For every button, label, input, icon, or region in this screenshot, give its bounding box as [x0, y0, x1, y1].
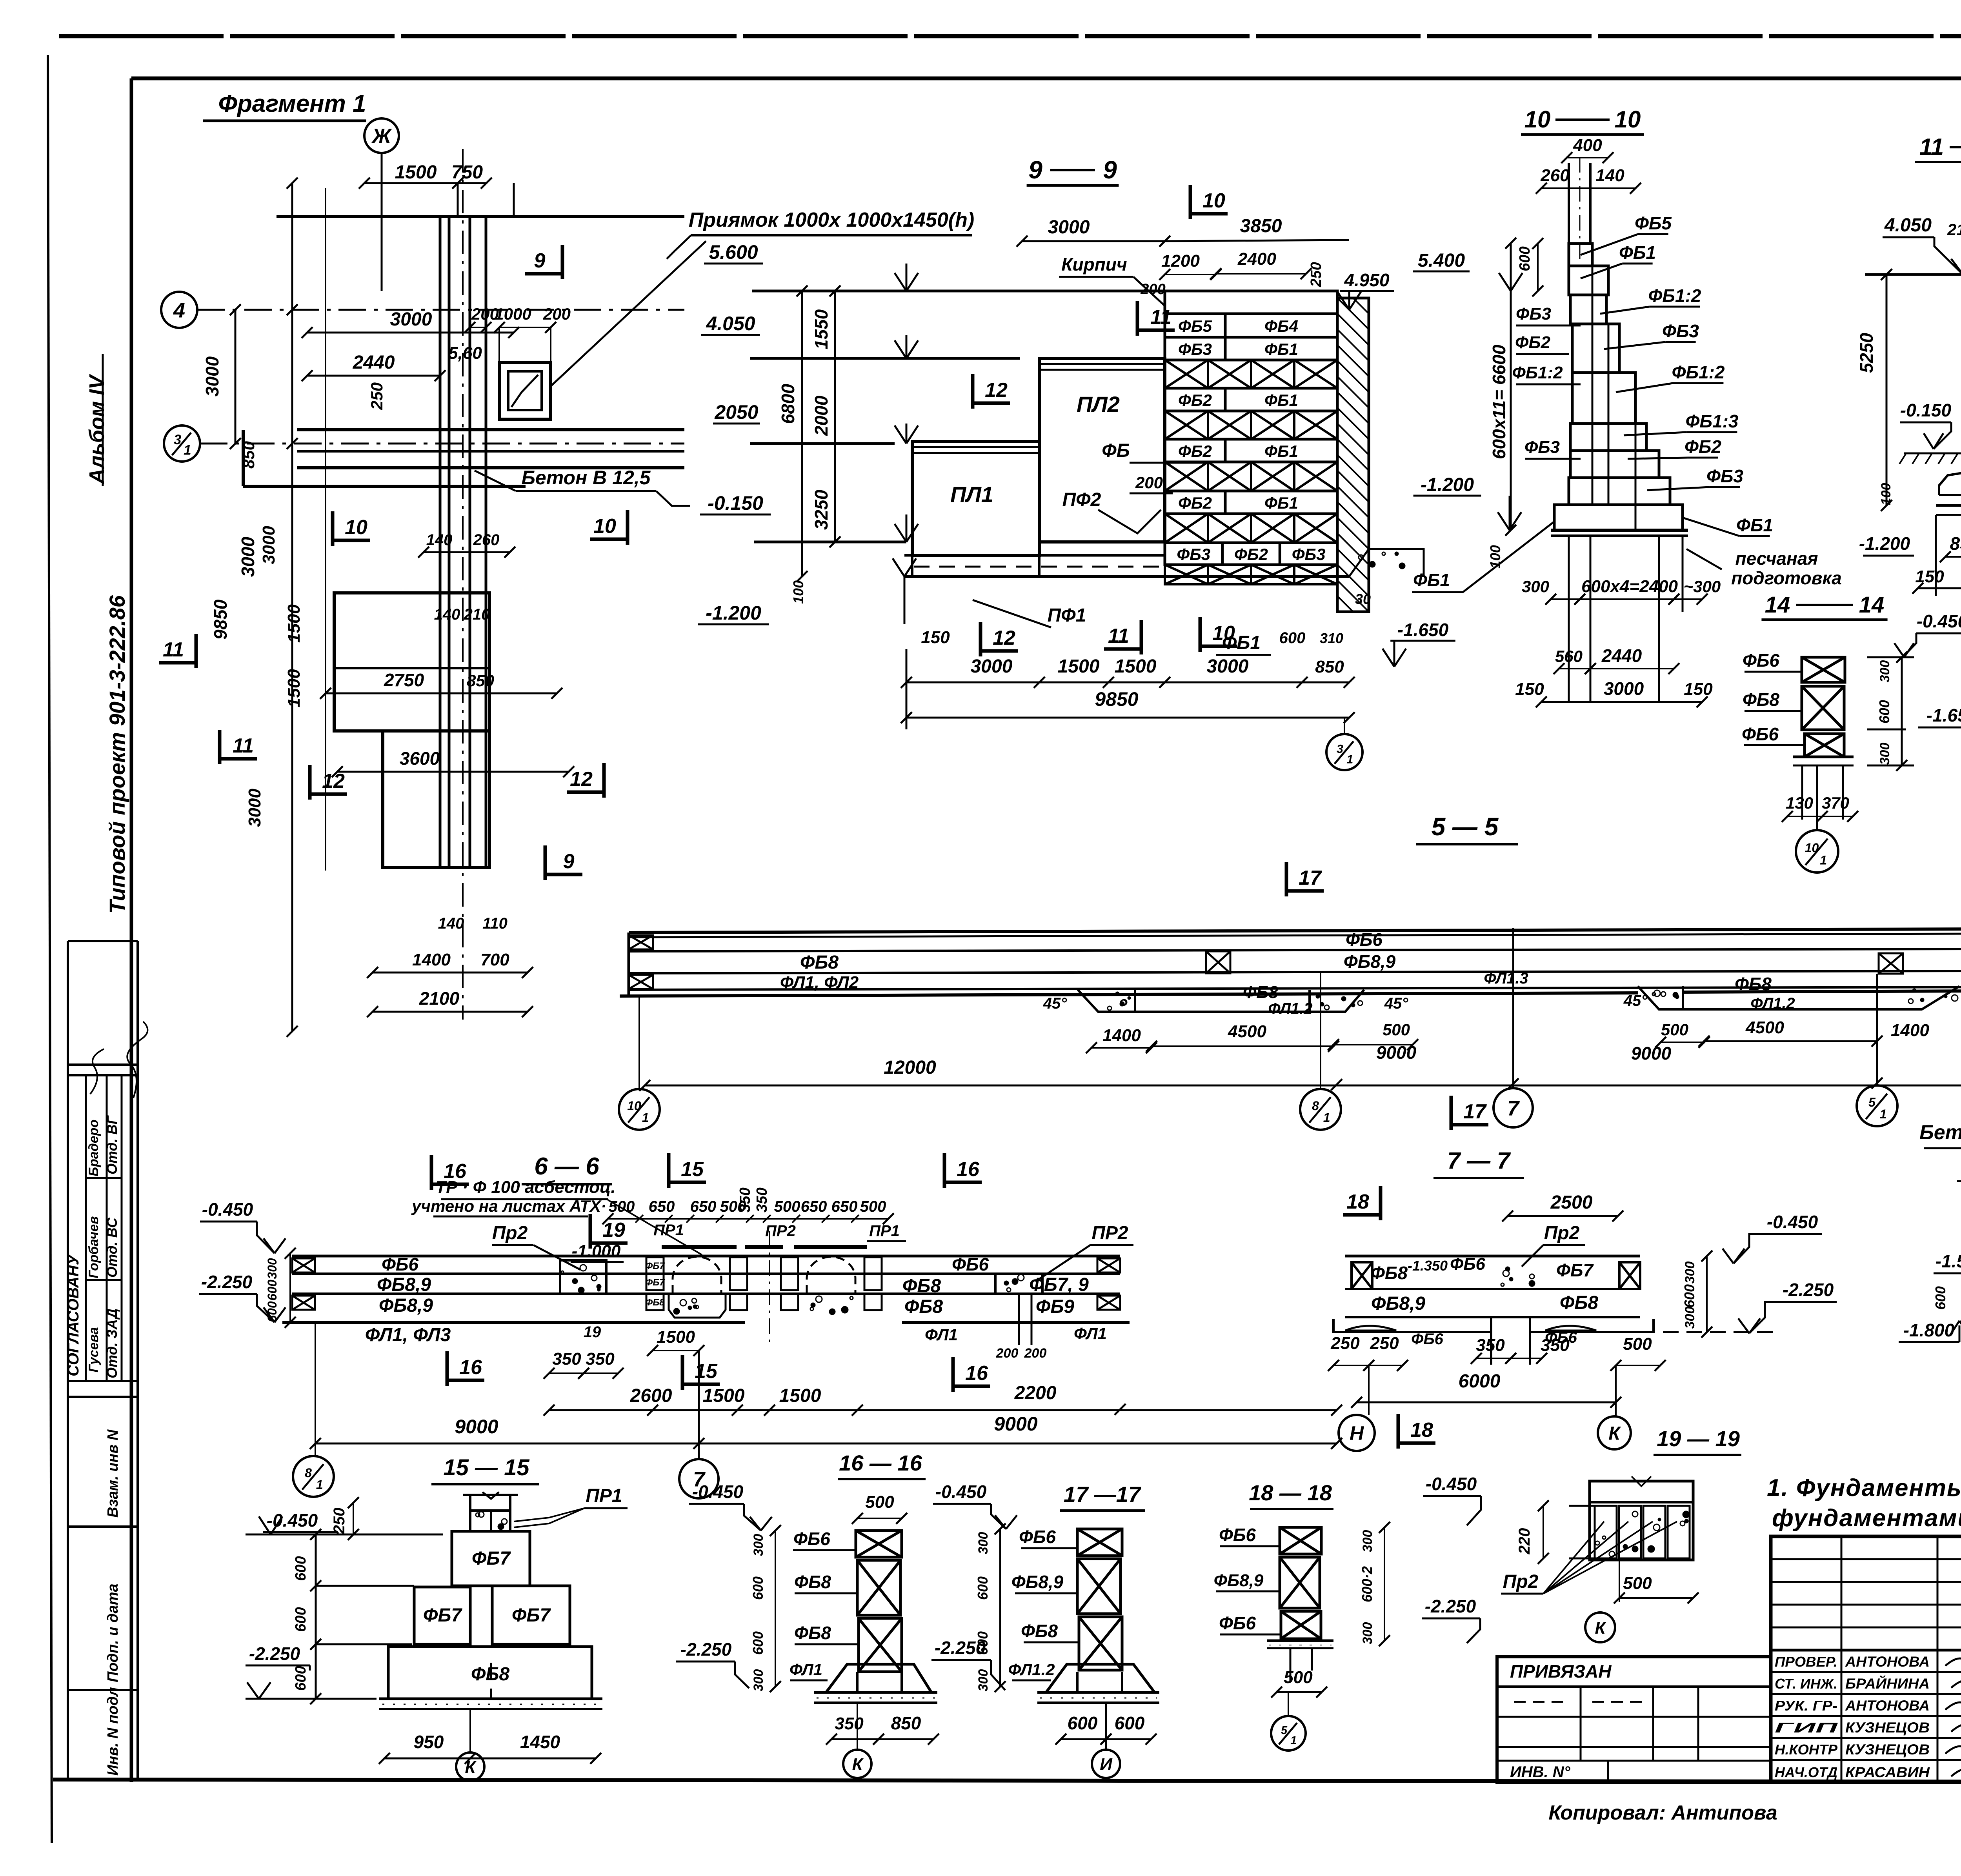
svg-text:ФБ5: ФБ5	[1635, 213, 1672, 233]
svg-text:500: 500	[1623, 1574, 1652, 1593]
svg-text:600: 600	[265, 1301, 279, 1322]
svg-text:ФЛ1.3: ФЛ1.3	[1484, 970, 1528, 987]
svg-text:130: 130	[1786, 794, 1813, 812]
svg-text:4500: 4500	[1228, 1022, 1266, 1041]
svg-text:СТ. ИНЖ.: СТ. ИНЖ.	[1775, 1676, 1837, 1692]
svg-text:12: 12	[570, 768, 593, 791]
svg-text:4.950: 4.950	[1344, 270, 1390, 290]
svg-text:-1.650: -1.650	[1397, 620, 1449, 640]
svg-text:ФБ7: ФБ7	[423, 1605, 462, 1626]
svg-text:9: 9	[534, 249, 546, 272]
svg-text:4.050: 4.050	[1884, 215, 1932, 236]
svg-text:ФЛ1, ФЛ3: ФЛ1, ФЛ3	[365, 1325, 451, 1345]
svg-text:2600: 2600	[630, 1385, 672, 1406]
svg-text:2500: 2500	[1550, 1192, 1593, 1213]
svg-text:1400: 1400	[412, 950, 451, 969]
svg-text:7 — 7: 7 — 7	[1447, 1147, 1511, 1174]
svg-text:300: 300	[751, 1534, 766, 1556]
svg-text:8: 8	[305, 1466, 312, 1480]
svg-text:ФБ7: ФБ7	[1556, 1260, 1594, 1280]
svg-text:ФЛ1: ФЛ1	[925, 1325, 958, 1344]
svg-text:100: 100	[790, 580, 806, 604]
svg-text:600: 600	[750, 1576, 766, 1600]
svg-text:200: 200	[996, 1346, 1019, 1361]
svg-text:150: 150	[921, 628, 950, 647]
svg-text:140: 140	[434, 606, 460, 623]
svg-text:370: 370	[1822, 794, 1849, 812]
svg-text:Пр2: Пр2	[492, 1223, 528, 1243]
svg-text:-0.450: -0.450	[1917, 611, 1961, 631]
svg-text:ФБ6: ФБ6	[382, 1254, 418, 1274]
svg-text:100: 100	[1879, 483, 1894, 505]
svg-text:Отд. ВГ: Отд. ВГ	[104, 1115, 120, 1174]
svg-text:Брадеро: Брадеро	[86, 1120, 101, 1176]
svg-text:4500: 4500	[1745, 1018, 1784, 1037]
svg-text:ФБ8: ФБ8	[1371, 1263, 1408, 1283]
svg-text:ФБ3: ФБ3	[1662, 321, 1699, 341]
svg-text:ФБ6: ФБ6	[1219, 1525, 1256, 1545]
svg-text:15: 15	[695, 1360, 718, 1383]
svg-text:Пр2: Пр2	[1544, 1223, 1580, 1243]
svg-text:850: 850	[239, 441, 258, 469]
svg-text:600: 600	[1517, 246, 1533, 271]
svg-text:ПР1: ПР1	[586, 1485, 622, 1506]
svg-text:-0.450: -0.450	[935, 1482, 987, 1502]
svg-text:18 — 18: 18 — 18	[1249, 1480, 1332, 1505]
svg-text:9000: 9000	[455, 1416, 498, 1438]
svg-text:350: 350	[737, 1187, 753, 1212]
svg-text:110: 110	[482, 915, 508, 932]
svg-text:Пр2: Пр2	[1503, 1571, 1539, 1592]
svg-text:1200: 1200	[1161, 251, 1200, 271]
svg-text:3: 3	[1337, 742, 1343, 756]
svg-text:1000: 1000	[495, 305, 531, 323]
svg-text:600: 600	[293, 1556, 309, 1581]
svg-text:3000: 3000	[1207, 656, 1249, 677]
svg-text:ПРИВЯЗАН: ПРИВЯЗАН	[1510, 1661, 1612, 1681]
svg-text:ФБ7: ФБ7	[645, 1261, 665, 1271]
svg-text:ПР2: ПР2	[1091, 1223, 1128, 1243]
svg-text:5: 5	[1868, 1095, 1876, 1109]
svg-text:140: 140	[438, 915, 464, 932]
svg-text:-2.250: -2.250	[201, 1272, 253, 1292]
svg-text:1500: 1500	[284, 604, 304, 643]
svg-text:ФБ8: ФБ8	[1560, 1292, 1598, 1313]
svg-text:300: 300	[1683, 1307, 1697, 1329]
svg-text:Бетон В 12,5: Бетон В 12,5	[522, 467, 651, 489]
svg-text:Горбачев: Горбачев	[86, 1216, 101, 1278]
svg-text:-1.200: -1.200	[1859, 533, 1910, 554]
svg-text:ФБ8: ФБ8	[645, 1297, 665, 1308]
svg-text:5 — 5: 5 — 5	[1432, 813, 1499, 841]
svg-text:1500: 1500	[657, 1327, 695, 1347]
svg-text:850: 850	[467, 671, 494, 690]
svg-text:ФБ1: ФБ1	[1413, 570, 1450, 590]
svg-text:-0.450: -0.450	[1767, 1212, 1818, 1232]
svg-text:6 — 6: 6 — 6	[534, 1153, 599, 1180]
svg-text:10: 10	[1202, 189, 1225, 212]
svg-text:-2.250: -2.250	[249, 1643, 300, 1664]
svg-text:16: 16	[965, 1362, 988, 1385]
svg-text:560: 560	[1555, 647, 1583, 665]
svg-text:1500: 1500	[284, 669, 304, 707]
svg-text:11: 11	[1108, 625, 1129, 647]
svg-text:150: 150	[1515, 680, 1544, 699]
svg-text:10: 10	[593, 515, 616, 538]
svg-text:ФБ8,9: ФБ8,9	[1371, 1293, 1425, 1314]
svg-text:ФБ2: ФБ2	[1684, 436, 1721, 457]
svg-text:250: 250	[1370, 1334, 1399, 1353]
svg-text:Приямок 1000х 1000х1450(h): Приямок 1000х 1000х1450(h)	[689, 209, 974, 231]
svg-text:600: 600	[1932, 1286, 1948, 1310]
svg-text:8: 8	[1312, 1099, 1319, 1113]
svg-text:ФБ3: ФБ3	[1524, 438, 1560, 457]
svg-text:3000: 3000	[971, 656, 1013, 677]
svg-text:650: 650	[649, 1198, 675, 1215]
svg-text:10: 10	[627, 1099, 641, 1113]
svg-text:250: 250	[1330, 1334, 1360, 1353]
svg-text:-2.250: -2.250	[935, 1638, 986, 1658]
svg-text:песчаная: песчаная	[1735, 548, 1818, 569]
svg-text:850: 850	[1950, 533, 1961, 554]
svg-text:БРАЙНИНА: БРАЙНИНА	[1845, 1675, 1930, 1692]
svg-text:17: 17	[1299, 867, 1322, 889]
svg-text:30: 30	[1355, 591, 1371, 607]
svg-text:ФБ2: ФБ2	[1234, 545, 1268, 564]
svg-text:ФБ6: ФБ6	[1346, 929, 1383, 950]
svg-text:9000: 9000	[994, 1413, 1037, 1435]
svg-text:140: 140	[1595, 166, 1624, 185]
svg-text:600: 600	[293, 1666, 309, 1691]
svg-text:Подп. и дата: Подп. и дата	[105, 1583, 121, 1682]
svg-text:500: 500	[1284, 1668, 1313, 1687]
svg-text:140: 140	[426, 531, 453, 549]
svg-text:10: 10	[345, 516, 367, 539]
svg-text:350: 350	[754, 1187, 770, 1212]
svg-text:ФБ1:2: ФБ1:2	[1512, 363, 1563, 382]
svg-text:ФБ6: ФБ6	[1743, 650, 1779, 671]
svg-text:45°: 45°	[1043, 995, 1067, 1012]
svg-text:ФЛ1: ФЛ1	[789, 1660, 822, 1679]
svg-text:К: К	[1608, 1423, 1621, 1444]
svg-text:18: 18	[1346, 1191, 1369, 1213]
svg-text:45°: 45°	[1623, 992, 1648, 1009]
svg-text:ФБ1:3: ФБ1:3	[1686, 411, 1739, 431]
svg-text:3000: 3000	[1048, 217, 1090, 238]
svg-text:9: 9	[563, 850, 575, 873]
svg-text:Отд. ВС: Отд. ВС	[104, 1217, 120, 1278]
svg-text:НАЧ.ОТД: НАЧ.ОТД	[1775, 1764, 1837, 1780]
svg-text:700: 700	[480, 950, 509, 969]
svg-text:ФБ2: ФБ2	[1178, 391, 1212, 409]
svg-text:ФБ1: ФБ1	[1736, 515, 1773, 535]
svg-text:Фрагмент 1: Фрагмент 1	[218, 90, 366, 117]
svg-text:ФБ1: ФБ1	[1619, 242, 1656, 263]
svg-text:ПР1: ПР1	[653, 1222, 684, 1239]
svg-text:ПЛ1: ПЛ1	[950, 482, 993, 507]
svg-text:10: 10	[1805, 841, 1819, 855]
svg-text:КУЗНЕЦОВ: КУЗНЕЦОВ	[1845, 1741, 1930, 1758]
svg-text:ФБ3: ФБ3	[1706, 466, 1743, 486]
svg-text:2200: 2200	[1014, 1383, 1057, 1403]
svg-text:ПРОВЕР.: ПРОВЕР.	[1775, 1654, 1837, 1670]
svg-text:600х4=2400: 600х4=2400	[1581, 577, 1678, 596]
svg-text:5.600: 5.600	[709, 241, 758, 263]
svg-text:3250: 3250	[811, 489, 831, 530]
svg-text:250: 250	[331, 1508, 348, 1534]
svg-text:1400: 1400	[1891, 1021, 1929, 1040]
svg-text:-1.500: -1.500	[1936, 1251, 1961, 1271]
svg-text:600: 600	[1279, 629, 1306, 647]
svg-text:600: 600	[1876, 700, 1892, 723]
svg-text:К: К	[1595, 1618, 1606, 1638]
svg-text:600х11= 6600: 600х11= 6600	[1489, 345, 1509, 459]
svg-text:500: 500	[860, 1198, 886, 1215]
svg-text:10: 10	[1615, 106, 1641, 133]
svg-text:600: 600	[293, 1607, 309, 1632]
svg-text:1500: 1500	[1115, 656, 1157, 677]
svg-text:2050: 2050	[714, 401, 758, 423]
svg-text:9: 9	[1103, 156, 1117, 184]
svg-text:ФБ3: ФБ3	[1516, 304, 1551, 324]
svg-text:14: 14	[1859, 592, 1885, 618]
svg-text:ФБ5: ФБ5	[1178, 317, 1212, 335]
svg-text:Типовой проект 901-3-222.86: Типовой проект 901-3-222.86	[105, 595, 129, 914]
svg-text:1450: 1450	[520, 1732, 560, 1752]
svg-text:ФБ: ФБ	[1102, 440, 1130, 461]
svg-text:300: 300	[1360, 1530, 1375, 1552]
svg-text:19: 19	[584, 1323, 601, 1341]
svg-text:Отд. ЗАД: Отд. ЗАД	[104, 1309, 120, 1378]
svg-text:ФБ1: ФБ1	[1222, 633, 1261, 653]
svg-text:ФБ7: ФБ7	[472, 1548, 511, 1569]
svg-text:12: 12	[993, 627, 1015, 649]
svg-text:2000: 2000	[811, 395, 831, 436]
svg-text:ФБ7: ФБ7	[512, 1605, 551, 1626]
svg-text:600: 600	[1068, 1713, 1098, 1733]
svg-text:2440: 2440	[353, 352, 395, 373]
svg-text:350: 350	[1541, 1336, 1570, 1355]
svg-text:ФБ2: ФБ2	[1178, 442, 1212, 460]
svg-text:ФБ8: ФБ8	[794, 1623, 831, 1643]
svg-text:-0.150: -0.150	[708, 492, 763, 514]
svg-text:фундаментами корпуса.: фундаментами корпуса.	[1772, 1505, 1961, 1532]
svg-text:1550: 1550	[811, 309, 831, 349]
svg-text:850: 850	[891, 1713, 921, 1733]
svg-text:19 — 19: 19 — 19	[1657, 1426, 1740, 1451]
svg-text:ФБ1: ФБ1	[1264, 442, 1298, 460]
svg-text:600: 600	[1115, 1713, 1145, 1733]
svg-text:650: 650	[831, 1198, 858, 1215]
svg-text:ФБ8: ФБ8	[800, 952, 839, 973]
svg-text:9850: 9850	[210, 599, 231, 640]
svg-text:1500: 1500	[395, 162, 437, 183]
svg-text:3: 3	[174, 432, 182, 447]
svg-text:Гусева: Гусева	[86, 1327, 101, 1372]
svg-text:600·2: 600·2	[1359, 1566, 1375, 1602]
svg-text:5.400: 5.400	[1418, 250, 1465, 271]
svg-text:18: 18	[1410, 1419, 1433, 1442]
svg-text:12000: 12000	[884, 1057, 936, 1078]
svg-text:300: 300	[751, 1669, 766, 1692]
svg-text:300: 300	[1877, 743, 1892, 765]
svg-text:ФБ8,9: ФБ8,9	[377, 1274, 431, 1295]
svg-text:ФБ2: ФБ2	[1515, 333, 1551, 352]
svg-text:-0.450: -0.450	[1426, 1474, 1477, 1494]
svg-text:ФБ3: ФБ3	[1178, 340, 1212, 358]
svg-text:500: 500	[1623, 1334, 1652, 1354]
svg-text:ФБ1:2: ФБ1:2	[1672, 362, 1725, 382]
svg-text:АНТОНОВА: АНТОНОВА	[1845, 1654, 1930, 1670]
svg-text:ПР1: ПР1	[869, 1222, 900, 1240]
svg-text:300: 300	[1360, 1622, 1375, 1645]
svg-text:ФБ8: ФБ8	[902, 1276, 941, 1296]
svg-text:350: 350	[586, 1349, 615, 1369]
svg-text:1: 1	[642, 1111, 649, 1125]
svg-text:16 — 16: 16 — 16	[839, 1451, 922, 1475]
svg-text:ФБ6: ФБ6	[793, 1529, 830, 1549]
svg-text:950: 950	[414, 1732, 444, 1752]
svg-text:ФБ6: ФБ6	[1219, 1613, 1256, 1633]
svg-text:ФБ6: ФБ6	[1019, 1527, 1056, 1547]
svg-text:2400: 2400	[1237, 249, 1276, 269]
svg-text:300: 300	[1522, 577, 1549, 596]
svg-text:1: 1	[1290, 1734, 1297, 1747]
svg-text:ФБ2: ФБ2	[1178, 494, 1212, 512]
svg-text:2100: 2100	[419, 988, 460, 1009]
svg-text:300: 300	[1877, 660, 1892, 683]
svg-text:6800: 6800	[778, 384, 798, 424]
svg-text:3850: 3850	[1240, 216, 1282, 236]
svg-text:ФБ8,9: ФБ8,9	[1344, 951, 1396, 972]
svg-text:220: 220	[1516, 1528, 1533, 1555]
svg-text:11: 11	[233, 734, 254, 757]
svg-text:200: 200	[1140, 281, 1165, 298]
svg-text:300: 300	[976, 1532, 991, 1554]
svg-text:600: 600	[265, 1280, 279, 1301]
svg-text:К: К	[465, 1758, 477, 1777]
svg-text:-2.250: -2.250	[1783, 1280, 1834, 1300]
svg-text:ФБ3: ФБ3	[1177, 545, 1210, 564]
svg-text:-0.450: -0.450	[692, 1482, 744, 1502]
svg-text:260: 260	[1540, 166, 1570, 185]
svg-text:260: 260	[473, 531, 500, 549]
svg-text:350: 350	[835, 1714, 864, 1733]
svg-text:ТР · Ф 100 асбестоц.: ТР · Ф 100 асбестоц.	[435, 1178, 615, 1197]
svg-text:16: 16	[459, 1356, 482, 1379]
svg-text:600: 600	[750, 1631, 766, 1655]
svg-text:ФЛ1.2: ФЛ1.2	[1268, 1000, 1312, 1017]
svg-text:ФБ8: ФБ8	[904, 1296, 943, 1317]
svg-text:ФБ1: ФБ1	[1264, 391, 1298, 409]
svg-text:500: 500	[865, 1492, 894, 1512]
svg-text:РУК. ГР-: РУК. ГР-	[1775, 1698, 1837, 1714]
svg-text:200: 200	[543, 305, 571, 323]
svg-text:ФБ1:2: ФБ1:2	[1648, 285, 1701, 306]
svg-text:-1.650: -1.650	[1926, 705, 1961, 725]
svg-text:1: 1	[184, 443, 191, 458]
svg-text:-0.450: -0.450	[202, 1199, 253, 1220]
svg-text:И: И	[1100, 1755, 1113, 1774]
svg-text:210: 210	[1947, 220, 1961, 239]
svg-text:5250: 5250	[1856, 333, 1877, 373]
svg-text:500: 500	[1383, 1020, 1410, 1039]
svg-text:-1.800: -1.800	[1903, 1320, 1955, 1340]
svg-text:ФБ9: ФБ9	[1036, 1296, 1074, 1317]
svg-text:-2.250: -2.250	[680, 1639, 732, 1660]
svg-text:45°: 45°	[1384, 995, 1408, 1012]
svg-text:4.050: 4.050	[706, 313, 755, 334]
svg-text:Альбом IV: Альбом IV	[85, 374, 109, 485]
svg-text:600: 600	[1681, 1284, 1697, 1308]
svg-text:400: 400	[1573, 136, 1602, 155]
svg-text:ФБ6: ФБ6	[1450, 1254, 1486, 1274]
svg-text:15 — 15: 15 — 15	[443, 1455, 529, 1480]
svg-text:500: 500	[609, 1198, 635, 1215]
svg-text:КРАСАВИН: КРАСАВИН	[1845, 1764, 1930, 1780]
svg-text:1: 1	[316, 1478, 323, 1492]
svg-text:АНТОНОВА: АНТОНОВА	[1845, 1698, 1930, 1714]
svg-text:-2.250: -2.250	[1425, 1596, 1476, 1616]
svg-text:Н.КОНТР: Н.КОНТР	[1775, 1741, 1838, 1758]
svg-text:ФБ8: ФБ8	[1735, 974, 1772, 994]
svg-text:100: 100	[1487, 545, 1503, 569]
svg-text:ФБ6: ФБ6	[1742, 724, 1779, 744]
svg-text:ФБ8: ФБ8	[1243, 983, 1279, 1002]
svg-text:9000: 9000	[1631, 1043, 1672, 1063]
svg-text:ФБ4: ФБ4	[1264, 317, 1298, 335]
svg-text:11: 11	[163, 638, 184, 661]
svg-text:200: 200	[1024, 1346, 1047, 1361]
svg-text:ФБ3: ФБ3	[1292, 545, 1326, 564]
svg-text:ФБ8,9: ФБ8,9	[379, 1295, 433, 1316]
svg-text:ПФ2: ПФ2	[1062, 489, 1101, 510]
svg-text:СОГЛАСОВАНУ: СОГЛАСОВАНУ	[65, 1253, 82, 1376]
svg-text:Инв. N подл: Инв. N подл	[105, 1687, 121, 1776]
svg-text:ФБ7: ФБ7	[645, 1277, 665, 1288]
svg-text:300: 300	[265, 1258, 279, 1279]
svg-text:Копировал: Антипова: Копировал: Антипова	[1548, 1801, 1777, 1824]
svg-text:350: 350	[1476, 1336, 1505, 1355]
svg-text:310: 310	[1320, 630, 1343, 646]
svg-text:5: 5	[1281, 1724, 1288, 1737]
svg-text:3000: 3000	[238, 536, 258, 577]
svg-text:1. Фундаменты под галерею м: 1. Фундаменты под галерею монтировать со…	[1767, 1474, 1961, 1502]
svg-text:3600: 3600	[400, 748, 440, 769]
svg-text:7: 7	[1507, 1096, 1520, 1120]
svg-text:650: 650	[690, 1198, 717, 1215]
svg-text:6000: 6000	[1459, 1371, 1501, 1392]
svg-text:-0.150: -0.150	[1900, 400, 1952, 420]
svg-text:ФБ8,9: ФБ8,9	[1011, 1572, 1064, 1592]
svg-text:12: 12	[322, 770, 345, 793]
svg-text:250: 250	[1308, 262, 1324, 287]
svg-text:ФЛ1: ФЛ1	[1074, 1324, 1107, 1343]
svg-text:1: 1	[1820, 853, 1827, 867]
svg-text:ИНВ. N°: ИНВ. N°	[1510, 1763, 1571, 1781]
svg-text:3000: 3000	[1604, 678, 1644, 699]
svg-text:150: 150	[1684, 680, 1713, 699]
svg-text:750: 750	[451, 162, 483, 183]
svg-text:ФБ8: ФБ8	[1021, 1621, 1058, 1641]
svg-text:15: 15	[681, 1158, 704, 1181]
svg-text:12: 12	[985, 379, 1008, 402]
svg-text:-1.350: -1.350	[1408, 1258, 1448, 1274]
svg-text:-1.000: -1.000	[572, 1242, 621, 1261]
svg-text:К: К	[852, 1755, 864, 1774]
svg-text:Взам. инв N: Взам. инв N	[105, 1429, 121, 1518]
svg-text:350: 350	[552, 1349, 581, 1369]
